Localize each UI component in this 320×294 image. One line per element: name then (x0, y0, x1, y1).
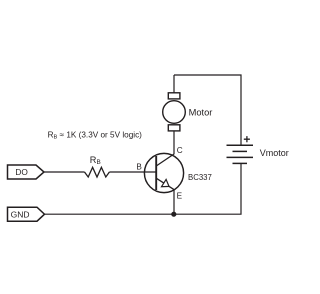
svg-text:RB ≈ 1K (3.3V or 5V logic): RB ≈ 1K (3.3V or 5V logic) (48, 130, 143, 140)
svg-text:GND: GND (11, 209, 30, 219)
label + (244, 136, 250, 142)
svg-text:E: E (177, 192, 183, 201)
svg-text:RB: RB (90, 155, 101, 166)
wire resistor to base (109, 171, 156, 173)
svg-text:C: C (177, 146, 183, 155)
wire motor top (173, 75, 175, 98)
svg-text:DO: DO (15, 167, 28, 177)
wire emitter to ground rail (173, 190, 175, 215)
wire top rail (174, 75, 241, 145)
resistor RB (85, 167, 110, 177)
flag GND (8, 207, 45, 221)
flag DO (8, 165, 45, 179)
wire DO to resistor (44, 171, 85, 173)
transistor Q1 BC337 (144, 153, 183, 192)
wire battery bottom (45, 163, 242, 214)
svg-text:Motor: Motor (189, 108, 213, 118)
svg-text:B: B (136, 163, 142, 172)
svg-text:BC337: BC337 (188, 173, 212, 182)
svg-text:Vmotor: Vmotor (260, 148, 289, 158)
battery Vmotor (227, 145, 254, 163)
wire collector to motor (173, 125, 175, 154)
junction emitter-ground (171, 212, 176, 217)
motor M1 (163, 93, 186, 131)
